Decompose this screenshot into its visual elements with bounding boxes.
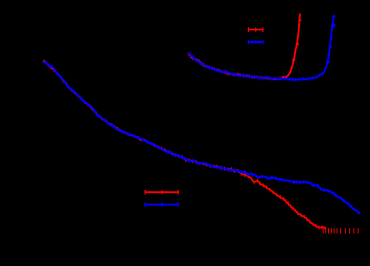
main legend: red errorbar sample — [145, 190, 179, 195]
main plot: blue data curve with diamond markers — [43, 62, 360, 215]
inset plot: red data curve with error ticks — [188, 14, 302, 81]
inset plot: blue data curve with diamond markers — [188, 17, 334, 82]
inset plot: blue diamond markers on rise — [326, 15, 337, 65]
inset legend: red errorbar sample — [248, 27, 263, 32]
inset legend: blue errorbar sample — [248, 40, 263, 45]
main plot: red terminal error bars — [323, 228, 358, 233]
main legend: blue errorbar sample with diamond — [145, 202, 179, 207]
main plot: red data curve with error ticks — [43, 61, 326, 230]
